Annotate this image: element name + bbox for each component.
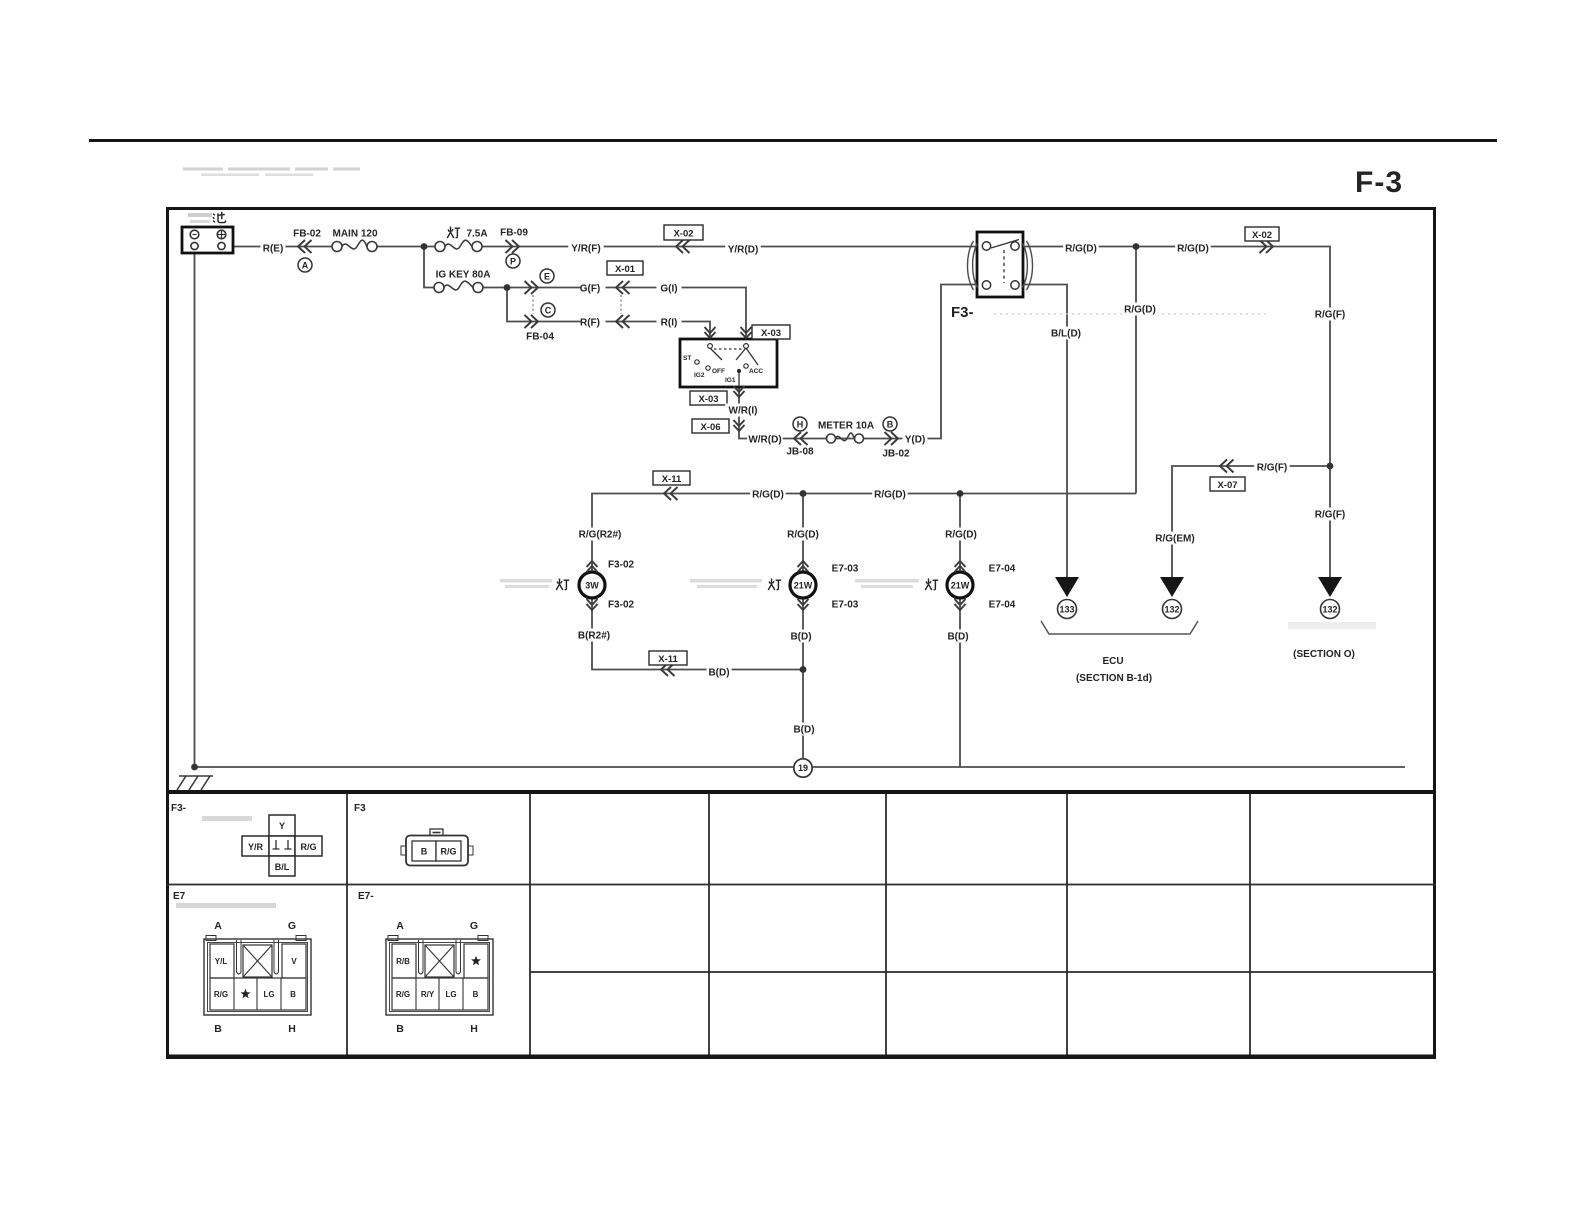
svg-text:B: B (396, 1023, 404, 1035)
svg-text:R/G(D): R/G(D) (1177, 244, 1209, 255)
svg-text:A: A (302, 261, 309, 271)
svg-text:132: 132 (1164, 605, 1179, 615)
svg-text:E7-: E7- (358, 891, 374, 902)
svg-text:C: C (545, 306, 552, 316)
svg-text:132: 132 (1322, 605, 1337, 615)
svg-text:P: P (510, 257, 516, 267)
svg-text:FB-02: FB-02 (293, 229, 321, 240)
svg-text:X-11: X-11 (658, 654, 678, 665)
svg-text:ECU: ECU (1102, 656, 1123, 667)
svg-text:19: 19 (798, 763, 808, 773)
svg-text:IG1: IG1 (725, 377, 736, 384)
svg-text:METER 10A: METER 10A (818, 421, 874, 432)
svg-text:JB-08: JB-08 (786, 447, 814, 458)
svg-text:Y(D): Y(D) (905, 435, 926, 446)
svg-text:Y/L: Y/L (215, 957, 228, 966)
svg-text:R/G(D): R/G(D) (787, 530, 819, 541)
svg-text:R/G(F): R/G(F) (1315, 310, 1346, 321)
svg-text:G(I): G(I) (660, 284, 677, 295)
svg-text:B: B (290, 990, 296, 999)
svg-text:R/G(F): R/G(F) (1315, 510, 1346, 521)
svg-text:E7-04: E7-04 (989, 564, 1016, 575)
svg-text:A: A (214, 920, 222, 932)
svg-text:E7-03: E7-03 (832, 564, 859, 575)
svg-text:F3-02: F3-02 (608, 600, 635, 611)
svg-text:JB-02: JB-02 (882, 449, 910, 460)
svg-text:7.5A: 7.5A (466, 229, 487, 240)
svg-text:OFF: OFF (712, 368, 725, 375)
svg-text:R/G(D): R/G(D) (752, 490, 784, 501)
svg-text:IG KEY 80A: IG KEY 80A (436, 270, 491, 281)
svg-text:W/R(D): W/R(D) (748, 435, 781, 446)
svg-text:LG: LG (445, 990, 456, 999)
svg-text:W/R(I): W/R(I) (729, 406, 758, 417)
svg-text:X-02: X-02 (1252, 230, 1272, 241)
svg-text:R/G(D): R/G(D) (1065, 244, 1097, 255)
svg-text:B(R2#): B(R2#) (578, 631, 610, 642)
svg-text:F3: F3 (354, 803, 366, 814)
svg-text:R/G: R/G (440, 847, 456, 857)
svg-text:B: B (887, 420, 894, 430)
svg-text:X-03: X-03 (698, 394, 718, 405)
svg-text:21W: 21W (794, 581, 813, 591)
svg-text:F3-: F3- (951, 304, 974, 321)
svg-text:3W: 3W (585, 581, 599, 591)
svg-text:R/G: R/G (300, 842, 316, 852)
svg-text:H: H (288, 1023, 296, 1035)
svg-text:133: 133 (1059, 605, 1074, 615)
svg-text:Y: Y (279, 821, 285, 831)
svg-text:B(D): B(D) (790, 632, 811, 643)
svg-text:E7: E7 (173, 891, 186, 902)
svg-text:X-02: X-02 (673, 229, 693, 240)
svg-text:X-06: X-06 (700, 422, 720, 433)
svg-text:X-01: X-01 (615, 264, 636, 275)
svg-text:Y/R: Y/R (248, 842, 264, 852)
svg-text:F3-: F3- (171, 803, 186, 814)
svg-text:21W: 21W (951, 581, 970, 591)
svg-text:H: H (797, 420, 804, 430)
svg-text:B(D): B(D) (947, 632, 968, 643)
svg-text:G(F): G(F) (580, 284, 601, 295)
svg-text:V: V (291, 957, 297, 966)
svg-text:IG2: IG2 (694, 372, 705, 379)
svg-text:E7-03: E7-03 (832, 600, 859, 611)
svg-text:R(F): R(F) (580, 318, 600, 329)
svg-text:X-07: X-07 (1217, 480, 1237, 491)
svg-text:A: A (396, 920, 404, 932)
svg-text:B: B (214, 1023, 222, 1035)
svg-text:G: G (288, 920, 296, 932)
svg-text:R/Y: R/Y (421, 990, 435, 999)
svg-text:R/G(D): R/G(D) (874, 490, 906, 501)
svg-text:G: G (470, 920, 478, 932)
svg-text:LG: LG (263, 990, 274, 999)
svg-text:B/L(D): B/L(D) (1051, 329, 1081, 340)
svg-text:Y/R(D): Y/R(D) (728, 245, 759, 256)
svg-text:B(D): B(D) (793, 725, 814, 736)
svg-text:B: B (473, 990, 479, 999)
svg-text:B: B (421, 847, 428, 857)
svg-text:FB-04: FB-04 (526, 332, 554, 343)
svg-text:R/B: R/B (396, 957, 410, 966)
svg-text:B(D): B(D) (708, 668, 729, 679)
svg-text:R/G(EM): R/G(EM) (1155, 534, 1194, 545)
svg-text:X-11: X-11 (662, 474, 682, 485)
svg-text:E: E (544, 272, 550, 282)
svg-text:R/G(D): R/G(D) (945, 530, 977, 541)
svg-text:FB-09: FB-09 (500, 228, 528, 239)
svg-text:R/G: R/G (214, 990, 228, 999)
svg-text:(SECTION O): (SECTION O) (1293, 649, 1355, 660)
svg-text:H: H (470, 1023, 478, 1035)
svg-text:R/G(F): R/G(F) (1257, 463, 1288, 474)
svg-text:R/G(R2#): R/G(R2#) (579, 530, 622, 541)
svg-text:MAIN 120: MAIN 120 (332, 229, 377, 240)
svg-text:Y/R(F): Y/R(F) (571, 244, 600, 255)
svg-text:F3-02: F3-02 (608, 560, 635, 571)
svg-text:ST: ST (683, 355, 691, 362)
svg-text:B/L: B/L (275, 862, 290, 872)
svg-text:E7-04: E7-04 (989, 600, 1016, 611)
svg-text:ACC: ACC (749, 368, 763, 375)
svg-text:R(E): R(E) (263, 244, 284, 255)
svg-text:R/G: R/G (396, 990, 410, 999)
svg-text:F-3: F-3 (1355, 166, 1403, 199)
svg-text:X-03: X-03 (761, 328, 781, 339)
svg-text:(SECTION B-1d): (SECTION B-1d) (1076, 673, 1152, 684)
svg-text:R/G(D): R/G(D) (1124, 305, 1156, 316)
svg-text:R(I): R(I) (661, 318, 678, 329)
